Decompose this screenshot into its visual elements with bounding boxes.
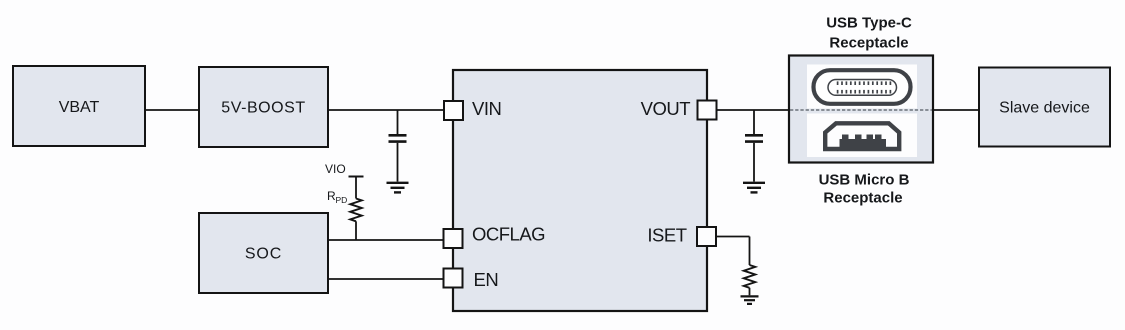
- block VBAT: [13, 66, 145, 146]
- wire ISET to resistor R2: [716, 237, 750, 266]
- svg-text:VBAT: VBAT: [59, 99, 100, 116]
- pin EN: [444, 269, 499, 291]
- wire 5V-BOOST to VIN pin: [328, 109, 444, 111]
- svg-text:SOC: SOC: [245, 246, 282, 263]
- svg-text:PD: PD: [336, 195, 348, 205]
- wire VBAT to 5V-BOOST: [145, 109, 199, 111]
- resistor RPD: [327, 189, 362, 240]
- pin VOUT: [641, 98, 717, 120]
- svg-text:Receptacle: Receptacle: [829, 34, 908, 51]
- svg-text:Slave device: Slave device: [999, 100, 1090, 117]
- label USB Micro B Receptacle: [819, 172, 910, 207]
- svg-text:USB Type-C: USB Type-C: [826, 14, 912, 31]
- ground for C2: [743, 183, 765, 193]
- svg-text:ISET: ISET: [647, 225, 686, 246]
- capacitor C2 (output): [745, 110, 763, 182]
- block 5V-BOOST: [199, 67, 328, 147]
- IC U1 (main block): [453, 70, 707, 311]
- svg-text:VIN: VIN: [472, 98, 501, 119]
- svg-text:5V-BOOST: 5V-BOOST: [221, 100, 305, 117]
- resistor R2 (ISET): [744, 265, 756, 295]
- svg-text:Receptacle: Receptacle: [823, 190, 902, 207]
- capacitor C1 (input): [389, 110, 407, 182]
- USB Type-C connector icon: [814, 70, 911, 104]
- block SOC: [199, 213, 328, 293]
- USB receptacle box: [789, 56, 933, 163]
- svg-text:USB Micro B: USB Micro B: [819, 172, 910, 189]
- ground for C1: [387, 183, 409, 193]
- svg-text:OCFLAG: OCFLAG: [472, 224, 545, 245]
- wire SOC to EN pin: [328, 278, 444, 280]
- wire VOUT to USB receptacle: [717, 109, 790, 111]
- ground for R2: [741, 296, 759, 304]
- pin OCFLAG: [444, 224, 546, 249]
- block Slave device: [979, 68, 1110, 147]
- dashed separator line: [790, 109, 932, 111]
- wire USB receptacle to Slave device: [933, 109, 979, 111]
- wire SOC to OCFLAG pin: [328, 239, 444, 241]
- svg-text:VOUT: VOUT: [641, 98, 691, 119]
- USB Micro B connector icon: [825, 123, 899, 149]
- pin VIN: [444, 98, 501, 120]
- svg-text:VIO: VIO: [325, 162, 346, 176]
- svg-text:EN: EN: [474, 269, 499, 290]
- node VIO: [325, 162, 364, 199]
- pin ISET: [647, 225, 716, 247]
- label USB Type-C Receptacle: [826, 14, 912, 51]
